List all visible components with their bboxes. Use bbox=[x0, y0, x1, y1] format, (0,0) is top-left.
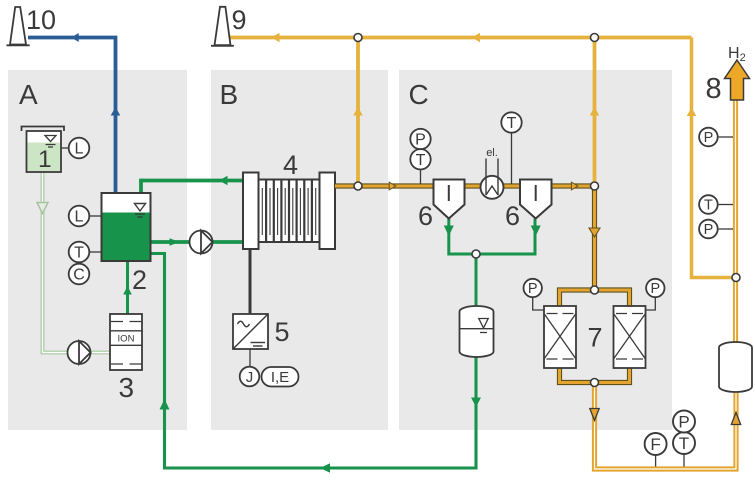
svg-text:L: L bbox=[75, 141, 84, 158]
wire: orange line between separators with heater bbox=[463, 183, 520, 188]
svg-text:F: F bbox=[650, 435, 660, 454]
zone A box bbox=[8, 70, 187, 430]
electrolyzer 4 right plate bbox=[320, 173, 336, 250]
pump P2 bbox=[190, 231, 213, 254]
dryer vessel right bbox=[614, 306, 646, 368]
instrument P (dryer left) connector bbox=[533, 298, 544, 311]
trap level symbol bbox=[460, 319, 494, 333]
instrument P (bottom line) bbox=[673, 411, 695, 433]
junction node (594.5,186) bbox=[591, 182, 599, 190]
wire: double-line product pipe from dryers bottom to buffer vessel bbox=[595, 383, 737, 470]
instrument L (tank 1) bbox=[69, 138, 90, 159]
arrow up on riser x=358 bbox=[353, 107, 363, 116]
junction node (594.5,37.5) bbox=[591, 34, 599, 42]
arrow on vent header at x=479 bbox=[472, 33, 480, 43]
wire: green line ION to tank 2 bottom bbox=[126, 261, 129, 314]
dryer section 7: top manifold bbox=[560, 290, 630, 306]
instrument P (product pipe lower) bbox=[699, 220, 718, 239]
wire: blue vent line to stack 10 bbox=[28, 38, 116, 194]
svg-text:I,E: I,E bbox=[271, 369, 289, 386]
wire: orange line separator right to riser bbox=[552, 183, 595, 188]
wire: green drains from separators bbox=[449, 219, 535, 255]
water trap vessel bbox=[460, 306, 494, 357]
instrument L (tank 2) connector bbox=[89, 215, 101, 217]
svg-text:P: P bbox=[650, 281, 660, 297]
instrument P (product pipe top) bbox=[699, 128, 718, 147]
heater el. bbox=[481, 147, 504, 199]
wire: orange vent header to stack 9 bbox=[229, 36, 692, 40]
svg-text:T: T bbox=[679, 434, 689, 453]
svg-text:el.: el. bbox=[486, 147, 498, 159]
svg-text:7: 7 bbox=[588, 323, 603, 353]
svg-text:T: T bbox=[416, 152, 426, 169]
arrow right on supply line bbox=[170, 238, 180, 246]
instrument T (separator line) stem bbox=[420, 169, 422, 184]
junction node (476,254) bbox=[472, 250, 480, 258]
instrument J bbox=[240, 367, 260, 387]
hollow arrow on pale pipe (down) bbox=[37, 203, 48, 214]
tank 2 level symbol bbox=[135, 204, 146, 218]
wire: green return line electrolyzer to tank 2 top bbox=[141, 181, 243, 194]
wire: double-line pipe above buffer vessel to H2 bbox=[733, 100, 738, 342]
tank 1 bbox=[22, 127, 65, 173]
H2 outlet arrow 8 bbox=[725, 60, 750, 100]
wire: orange riser x=594.5 top to dryers bbox=[593, 38, 597, 187]
instrument P (separator line) bbox=[410, 129, 430, 149]
ION exchanger 3 bbox=[110, 314, 142, 370]
arrow left on bottom return bbox=[320, 463, 330, 473]
instrument T (bottom line) bbox=[673, 432, 695, 454]
wire: green supply tank 2 to pump P2 to electrolyzer bbox=[151, 240, 243, 244]
arrow up on riser x=594.5 bbox=[590, 107, 600, 116]
instrument T (heater) bbox=[501, 112, 521, 132]
wire: orange vent riser x=358 bbox=[356, 38, 360, 187]
instrument P (dryer right) bbox=[646, 279, 664, 297]
junction node (358,186) bbox=[354, 182, 362, 190]
stack 9 chimney bbox=[211, 7, 234, 46]
separator 6 right bbox=[520, 180, 552, 219]
svg-text:C: C bbox=[73, 267, 85, 284]
svg-text:T: T bbox=[74, 245, 84, 262]
svg-text:8: 8 bbox=[706, 73, 722, 105]
svg-text:T: T bbox=[704, 198, 713, 214]
svg-text:5: 5 bbox=[275, 317, 290, 347]
svg-text:10: 10 bbox=[26, 5, 56, 35]
instrument T (separator line) bbox=[410, 149, 430, 169]
arrow down on trap drain bbox=[471, 398, 481, 408]
svg-text:P: P bbox=[704, 130, 714, 146]
arrow right after separator bbox=[571, 182, 578, 190]
svg-text:2: 2 bbox=[132, 265, 147, 295]
buffer vessel bbox=[719, 342, 752, 392]
instrument T (tank 2) connector bbox=[89, 251, 101, 253]
arrow down left separator drain bbox=[444, 226, 454, 237]
arrow up on vent branch bbox=[687, 108, 697, 117]
svg-text:P: P bbox=[528, 281, 538, 297]
stack 10 chimney bbox=[7, 7, 30, 45]
svg-text:J: J bbox=[246, 369, 254, 386]
arrow right on process line bbox=[389, 182, 396, 190]
instrument I,E bbox=[262, 367, 299, 387]
tank 1 level symbol bbox=[45, 136, 56, 148]
arrow down right separator drain bbox=[531, 226, 541, 237]
svg-text:ION: ION bbox=[118, 334, 135, 345]
electrolyzer 4 left plate bbox=[243, 173, 259, 250]
dryer vessel left bbox=[544, 306, 576, 368]
junction node (594.5,290) bbox=[591, 286, 599, 294]
instrument T (product pipe) bbox=[699, 195, 718, 214]
instrument stem converter bbox=[249, 349, 251, 367]
junction node (358,37.5) bbox=[354, 34, 362, 42]
svg-text:A: A bbox=[19, 79, 38, 110]
tank 2 bbox=[102, 193, 151, 261]
wire: power line to converter 5 bbox=[249, 249, 252, 314]
instrument F (bottom line) bbox=[645, 433, 667, 455]
svg-text:P: P bbox=[704, 222, 714, 238]
converter 5 bbox=[233, 314, 268, 349]
svg-text:4: 4 bbox=[283, 150, 298, 180]
arrow down on riser x=594.5 bbox=[589, 228, 600, 237]
wire: outlined process pipe electrolyzer to separator bbox=[335, 183, 434, 188]
instrument C (tank 2) bbox=[69, 264, 90, 285]
svg-text:6: 6 bbox=[505, 201, 520, 231]
wire: orange vent branch x=691.5 bbox=[692, 38, 734, 278]
instrument P (dryer left) bbox=[524, 279, 542, 297]
zone C box bbox=[399, 70, 672, 430]
instrument T (heater) stem bbox=[511, 133, 513, 185]
junction node (594.5,382.5) bbox=[591, 379, 599, 387]
junction node (736,277.5) bbox=[732, 274, 740, 282]
wire: pale feed pipe tank1 to pump to ION bbox=[43, 172, 111, 353]
instrument T (bottom line) stem bbox=[683, 453, 685, 467]
instrument L (tank 2) bbox=[69, 206, 90, 227]
arrow on blue line (up) bbox=[111, 107, 121, 116]
svg-text:L: L bbox=[75, 209, 84, 226]
svg-text:9: 9 bbox=[232, 5, 247, 35]
wire: green recirculation trap to tank 2 right bbox=[151, 254, 476, 469]
svg-text:B: B bbox=[220, 79, 239, 110]
arrow on blue line (left) bbox=[71, 33, 79, 42]
instrument L (tank 1) connector bbox=[61, 147, 69, 149]
arrow up below buffer vessel (outlined) bbox=[731, 413, 740, 425]
zone B box bbox=[211, 70, 388, 430]
arrow down on product pipe (outlined) bbox=[590, 409, 599, 421]
instrument P (dryer right) connector bbox=[646, 298, 656, 311]
dryer section 7: bottom manifold bbox=[560, 368, 630, 383]
electrolyzer 4 cell block bbox=[259, 180, 320, 243]
arrow on vent header at x=278 bbox=[272, 33, 280, 43]
separator 6 left bbox=[434, 180, 465, 219]
pump P1 bbox=[68, 341, 91, 364]
svg-text:T: T bbox=[507, 115, 517, 132]
svg-text:6: 6 bbox=[418, 201, 433, 231]
svg-text:P: P bbox=[678, 413, 689, 432]
svg-text:3: 3 bbox=[119, 372, 135, 403]
instrument F (bottom line) stem bbox=[655, 455, 657, 467]
svg-text:P: P bbox=[415, 132, 426, 149]
wire: outlined process riser to dryers bbox=[592, 186, 597, 290]
svg-text:1: 1 bbox=[38, 146, 52, 173]
arrow up ION to tank2 bbox=[123, 286, 132, 295]
arrow up on left riser bbox=[160, 399, 170, 410]
instrument T (tank 2) bbox=[69, 242, 90, 263]
svg-text:C: C bbox=[409, 79, 429, 110]
arrow left on return line bbox=[219, 176, 228, 186]
